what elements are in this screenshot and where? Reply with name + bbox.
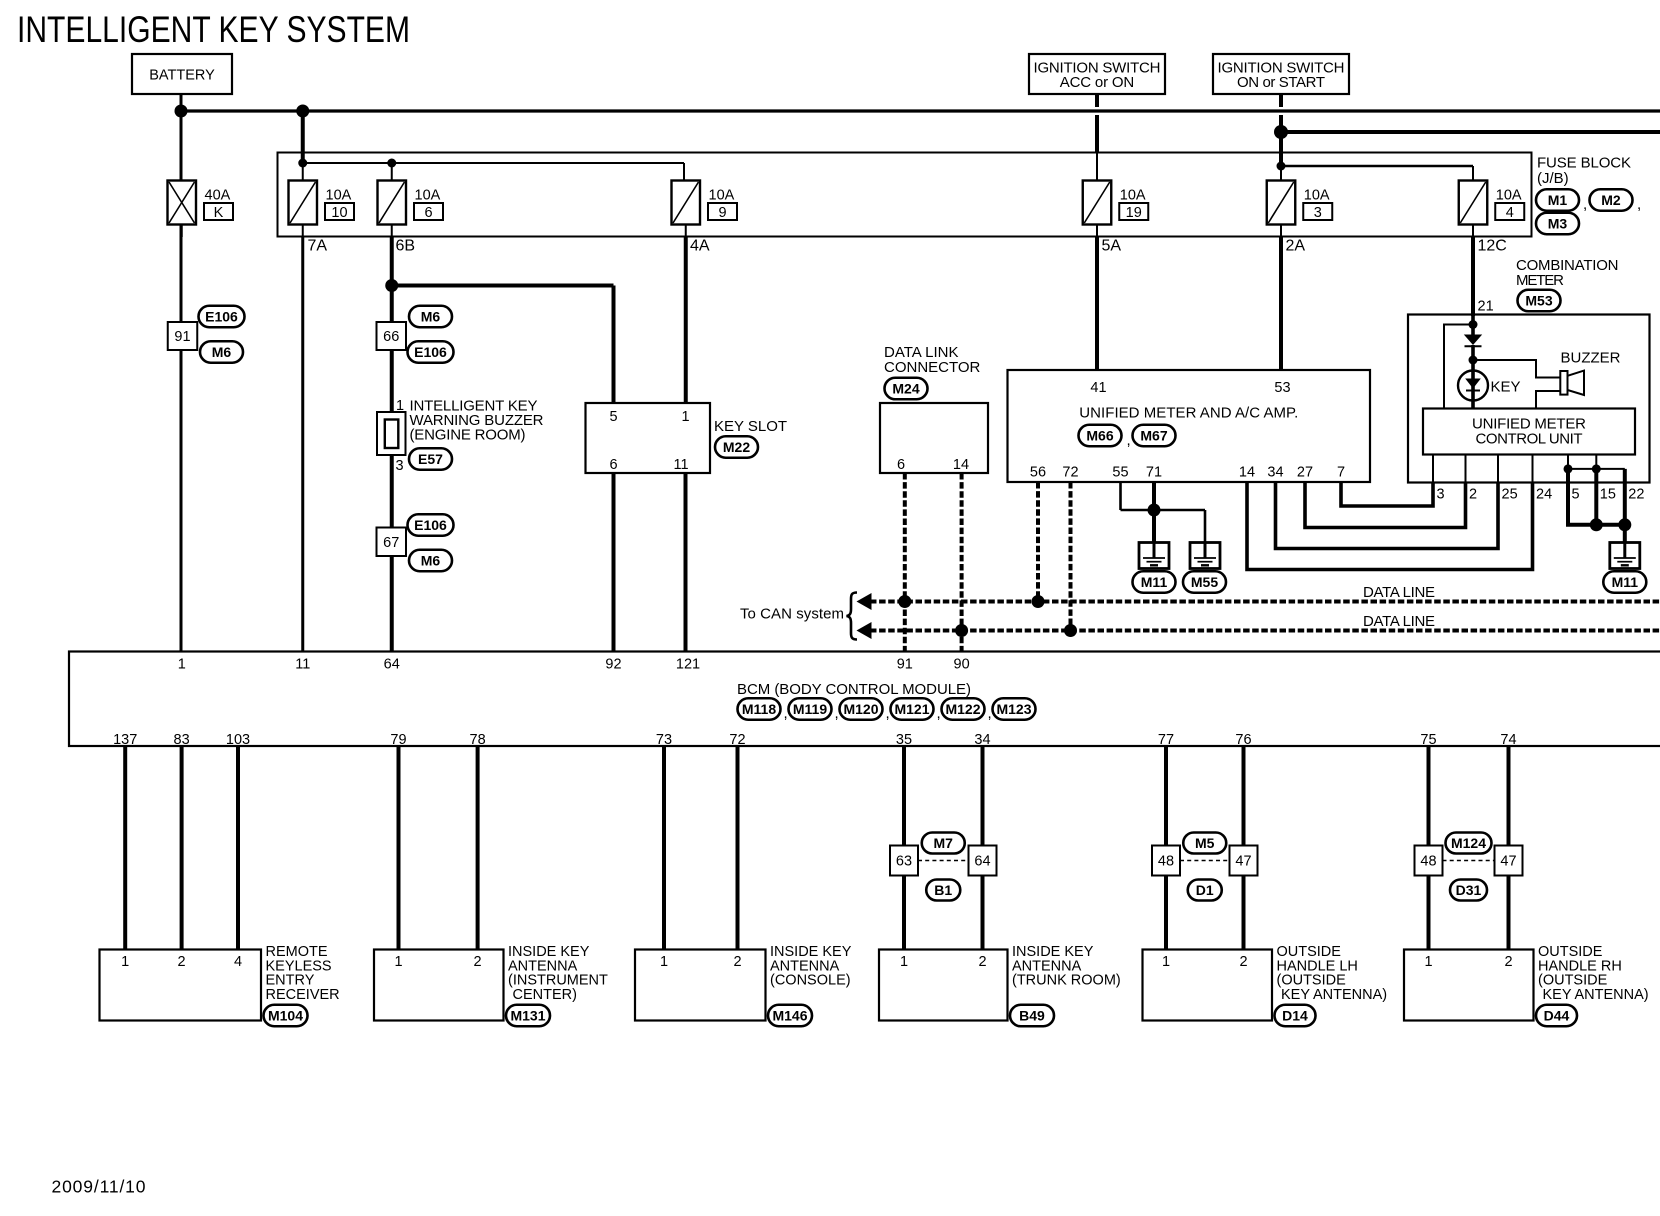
node tie pin 15 — [1592, 464, 1601, 473]
wire BCM to antenna via connector — [1427, 746, 1431, 950]
connector M122 — [942, 698, 985, 720]
buzzer speaker symbol — [1560, 371, 1584, 395]
svg-text:M11: M11 — [1612, 574, 1639, 590]
svg-text:BCM (BODY CONTROL MODULE): BCM (BODY CONTROL MODULE) — [737, 681, 971, 698]
connector split M5/D1 — [1180, 860, 1230, 862]
svg-text:1: 1 — [121, 954, 129, 970]
wire amp pin 55 down — [1119, 482, 1122, 510]
svg-text:KEY ANTENNA): KEY ANTENNA) — [1543, 987, 1649, 1003]
svg-text:M67: M67 — [1140, 428, 1167, 444]
svg-text:12C: 12C — [1478, 238, 1507, 255]
fuse 10A 19 — [1083, 181, 1149, 225]
connector M118 — [738, 698, 781, 720]
node key/buzzer junction — [1469, 356, 1478, 365]
wire BCM to antenna via connector — [902, 746, 906, 950]
svg-text:CONNECTOR: CONNECTOR — [884, 359, 981, 376]
wire 6B to BCM pin 64 — [390, 237, 394, 652]
wire internal rail drop to fuse 9 — [683, 163, 685, 181]
wire meter pin 5 down — [1566, 469, 1570, 525]
svg-text:M6: M6 — [212, 344, 232, 360]
wire pin 21 into meter — [1471, 315, 1475, 337]
wire BCM to antenna/receiver — [123, 746, 127, 950]
svg-text:11: 11 — [673, 457, 688, 473]
svg-text:M121: M121 — [894, 701, 929, 717]
svg-text:M1: M1 — [1548, 192, 1568, 208]
svg-text:47: 47 — [1500, 854, 1516, 870]
svg-text:CONTROL UNIT: CONTROL UNIT — [1476, 431, 1583, 448]
wire ACC inside fuse block to fuse 19 — [1096, 153, 1098, 182]
wire control unit pin stub — [1465, 455, 1467, 483]
wire key slot pin 6 to BCM 92 — [612, 473, 616, 652]
svg-text:2: 2 — [1504, 954, 1512, 970]
wire BCM to antenna/receiver — [180, 746, 184, 950]
connector M11 — [1603, 571, 1646, 593]
svg-text:48: 48 — [1420, 854, 1436, 870]
wire data line 2 — [870, 629, 1660, 633]
wire amp pin 71 to ground — [1152, 482, 1156, 543]
svg-text:76: 76 — [1235, 732, 1251, 748]
remote keyless entry receiver M104 — [100, 950, 262, 1021]
fuse 10A 6 — [378, 181, 444, 225]
wire fuse output stub — [1096, 225, 1098, 238]
svg-text:E106: E106 — [414, 517, 447, 533]
connector split M124/D31 — [1443, 860, 1495, 862]
svg-text:48: 48 — [1158, 854, 1174, 870]
arrow data line 1 — [857, 593, 872, 610]
fuse 10A 4 — [1459, 181, 1525, 225]
connector M119 — [789, 698, 832, 720]
svg-text:M66: M66 — [1086, 428, 1113, 444]
wire fuse output stub — [391, 225, 393, 238]
connector D1 — [1188, 880, 1222, 901]
wire CAN-L amp 72 to data line — [1069, 482, 1073, 631]
intelligent key warning buzzer E57 — [377, 412, 406, 455]
svg-text:9: 9 — [718, 205, 726, 221]
connector pass-through 67 — [377, 528, 407, 557]
wire CAN-H amp 56 to data line — [1036, 482, 1040, 602]
wire 12C to combination meter pin 21 — [1471, 237, 1475, 317]
ground M11 (meter) — [1610, 542, 1640, 569]
wire BCM to antenna via connector — [1242, 746, 1246, 950]
svg-text:1: 1 — [178, 657, 186, 673]
connector M24 — [885, 378, 928, 400]
svg-text:83: 83 — [174, 732, 190, 748]
wire internal rail drop to fuse 6 — [391, 163, 393, 181]
wire ground branch right — [1154, 509, 1205, 512]
svg-text:2: 2 — [474, 954, 482, 970]
unified meter control unit box — [1423, 409, 1635, 455]
connector M2 — [1590, 189, 1633, 211]
wire diode to key LED — [1471, 345, 1475, 372]
svg-text:4A: 4A — [690, 238, 710, 255]
svg-text:M53: M53 — [1525, 293, 1552, 309]
ignition switch ACC or ON box — [1029, 54, 1165, 94]
wire fuse output stub — [302, 225, 304, 238]
svg-text:,: , — [988, 705, 992, 722]
svg-text:(TRUNK ROOM): (TRUNK ROOM) — [1012, 973, 1121, 989]
svg-text:40A: 40A — [205, 188, 231, 204]
fuse 40A K — [168, 181, 234, 225]
wire BCM to antenna via connector — [981, 746, 985, 950]
node DLC 6 on data line 1 — [898, 595, 911, 608]
wire ACC drop to fuse block — [1095, 115, 1099, 153]
wire control unit pin 15 stub — [1595, 455, 1597, 469]
svg-text:75: 75 — [1420, 732, 1436, 748]
svg-text:5: 5 — [1572, 487, 1580, 503]
connector M5 — [1183, 833, 1226, 854]
combination meter box — [1408, 315, 1650, 483]
svg-text:1: 1 — [1162, 954, 1170, 970]
node ground join — [1148, 504, 1161, 517]
connector pin 48 — [1415, 846, 1443, 876]
svg-text:M146: M146 — [772, 1008, 807, 1024]
svg-text:79: 79 — [390, 732, 406, 748]
node DLC 14 on data line 2 — [955, 624, 968, 637]
svg-text:,: , — [886, 705, 890, 722]
wire BCM to antenna/receiver — [662, 746, 666, 950]
svg-text:6: 6 — [897, 457, 905, 473]
svg-text:92: 92 — [605, 657, 621, 673]
svg-text:24: 24 — [1536, 487, 1552, 503]
fuse 10A 3 — [1267, 181, 1333, 225]
svg-text:3: 3 — [396, 458, 404, 474]
connector pass-through 66 — [377, 322, 407, 350]
svg-text:10A: 10A — [326, 188, 352, 204]
svg-text:E106: E106 — [414, 344, 447, 360]
wire battery to fuse K — [180, 94, 183, 182]
svg-text:71: 71 — [1146, 465, 1162, 481]
svg-text:90: 90 — [954, 657, 970, 673]
svg-text:1: 1 — [394, 954, 402, 970]
svg-text:63: 63 — [896, 854, 912, 870]
svg-text:7: 7 — [1337, 465, 1345, 481]
wire meter internal 5-15-22 tie — [1568, 468, 1625, 470]
wire ACC drop above bus1 — [1095, 94, 1099, 107]
svg-text:56: 56 — [1030, 465, 1046, 481]
svg-text:103: 103 — [226, 732, 250, 748]
svg-text:M119: M119 — [793, 701, 827, 717]
wire BCM to antenna/receiver — [236, 746, 240, 950]
svg-text:34: 34 — [974, 732, 990, 748]
svg-text:72: 72 — [729, 732, 745, 748]
connector M3 — [1536, 213, 1579, 235]
svg-text:B1: B1 — [934, 882, 952, 898]
CAN brace — [847, 593, 858, 640]
svg-text:,: , — [1127, 432, 1131, 449]
wire fuse output stub — [685, 225, 687, 238]
svg-text:10A: 10A — [1120, 188, 1146, 204]
svg-text:M123: M123 — [996, 701, 1031, 717]
svg-text:,: , — [784, 705, 788, 722]
svg-text:INTELLIGENT KEY SYSTEM: INTELLIGENT KEY SYSTEM — [17, 9, 410, 50]
wire fuse output stub — [181, 225, 183, 238]
wire key slot pin 11 to BCM 121 — [684, 473, 688, 652]
wire 7A to BCM pin 11 — [301, 237, 304, 652]
svg-text:1: 1 — [396, 398, 404, 414]
svg-text:M131: M131 — [510, 1008, 545, 1024]
svg-text:BUZZER: BUZZER — [1561, 350, 1621, 367]
connector M6 — [409, 306, 452, 328]
connector M55 — [1183, 571, 1226, 593]
svg-text:78: 78 — [470, 732, 486, 748]
wire control unit pin stub — [1497, 455, 1499, 483]
connector M123 — [993, 698, 1036, 720]
svg-text:,: , — [1583, 196, 1587, 213]
svg-text:D31: D31 — [1456, 882, 1482, 898]
wire buzzer to control unit — [1536, 391, 1560, 409]
svg-text:10A: 10A — [415, 188, 441, 204]
wire amp pin 7 to meter pin 3 — [1341, 482, 1433, 506]
svg-text:2: 2 — [1239, 954, 1247, 970]
node battery bus junction 1 — [175, 105, 188, 118]
svg-text:21: 21 — [1478, 299, 1494, 315]
node tie pin 5 — [1564, 464, 1573, 473]
wire junction to control unit left — [1444, 325, 1473, 409]
wire control unit pin stub — [1432, 455, 1434, 483]
wire CAN-H DLC to BCM 91 — [903, 473, 907, 652]
svg-text:121: 121 — [676, 657, 700, 673]
fuse 10A 9 — [672, 181, 738, 225]
svg-text:ON or START: ON or START — [1237, 74, 1325, 91]
svg-text:K: K — [214, 205, 224, 221]
connector pin 48 — [1152, 846, 1180, 876]
svg-text:53: 53 — [1274, 380, 1290, 396]
svg-text:M120: M120 — [843, 701, 878, 717]
wire BCM to antenna/receiver — [397, 746, 401, 950]
svg-text:15: 15 — [1600, 487, 1616, 503]
node internal rail junction fuse 3 — [1277, 162, 1286, 171]
svg-text:(ENGINE ROOM): (ENGINE ROOM) — [410, 427, 526, 444]
svg-text:DATA LINE: DATA LINE — [1363, 613, 1435, 630]
svg-text:3: 3 — [1437, 487, 1445, 503]
node 6B branch junction — [385, 279, 398, 292]
svg-text:KEY ANTENNA): KEY ANTENNA) — [1281, 987, 1387, 1003]
svg-text:47: 47 — [1235, 854, 1251, 870]
wire bus2 ignition feed — [1281, 130, 1660, 134]
wire 2A to meter amp pin 53 — [1279, 237, 1283, 371]
svg-text:D44: D44 — [1544, 1008, 1570, 1024]
connector E106 — [408, 341, 454, 363]
wire bus1 battery feed — [180, 109, 1660, 112]
svg-text:M55: M55 — [1191, 574, 1218, 590]
fuse 10A 10 — [289, 181, 355, 225]
node meter internal junction — [1469, 320, 1478, 329]
wire control unit pin 5 stub — [1567, 455, 1569, 469]
svg-text:M24: M24 — [892, 381, 919, 397]
node ground tie 15 — [1590, 518, 1603, 531]
svg-text:2: 2 — [978, 954, 986, 970]
svg-text:5A: 5A — [1102, 238, 1122, 255]
connector M6 — [409, 550, 452, 572]
unified meter and A/C amp box — [1008, 370, 1371, 482]
outside handle LH D14 — [1143, 950, 1273, 1021]
svg-text:27: 27 — [1297, 465, 1313, 481]
connector M66 — [1079, 425, 1122, 447]
svg-text:1: 1 — [660, 954, 668, 970]
battery box — [132, 54, 232, 94]
inside key antenna instrument center M131 — [374, 950, 504, 1021]
inside key antenna console M146 — [635, 950, 766, 1021]
svg-text:To CAN system: To CAN system — [740, 606, 844, 623]
wire BCM to antenna via connector — [1164, 746, 1168, 950]
connector pin 64 — [969, 846, 997, 876]
connector M121 — [891, 698, 934, 720]
wire amp pin 14 to meter pin 24 — [1247, 482, 1533, 570]
svg-text:137: 137 — [113, 732, 137, 748]
wire 6B branch to key slot — [392, 284, 614, 288]
svg-text:2A: 2A — [1286, 238, 1306, 255]
svg-text:67: 67 — [383, 535, 399, 551]
svg-text:METER: METER — [1516, 272, 1564, 289]
svg-text:ACC or ON: ACC or ON — [1060, 74, 1135, 91]
svg-text:D14: D14 — [1282, 1008, 1308, 1024]
svg-text:91: 91 — [174, 329, 190, 345]
svg-text:2: 2 — [733, 954, 741, 970]
svg-text:2: 2 — [178, 954, 186, 970]
diode D1 (meter) — [1464, 335, 1482, 347]
svg-text:3: 3 — [1314, 205, 1322, 221]
wire control unit pin stub — [1532, 455, 1534, 483]
wire 4A to key slot pin 1 — [684, 237, 688, 404]
svg-text:DATA LINE: DATA LINE — [1363, 584, 1435, 601]
node ground tie 22 — [1618, 518, 1631, 531]
svg-text:E106: E106 — [205, 309, 238, 325]
svg-text:4: 4 — [1506, 205, 1514, 221]
connector E57 — [409, 448, 452, 470]
svg-text:10A: 10A — [1304, 188, 1330, 204]
fuse block (J/B) outline — [278, 153, 1532, 237]
svg-text:1: 1 — [681, 409, 689, 425]
wire fuse block internal battery rail — [303, 162, 684, 164]
svg-text:72: 72 — [1062, 465, 1078, 481]
svg-text:M118: M118 — [742, 701, 776, 717]
node internal rail junction fuse 10 — [298, 159, 307, 168]
svg-text:M124: M124 — [1451, 835, 1486, 851]
svg-text:64: 64 — [974, 854, 990, 870]
svg-text:22: 22 — [1628, 487, 1644, 503]
wire meter pin 22 to ground — [1623, 469, 1627, 543]
svg-text:74: 74 — [1500, 732, 1516, 748]
svg-text:M2: M2 — [1601, 192, 1621, 208]
wire BCM to antenna via connector — [1507, 746, 1511, 950]
svg-text:1: 1 — [1424, 954, 1432, 970]
svg-text:,: , — [937, 705, 941, 722]
wire 5A to meter amp pin 41 — [1095, 237, 1099, 371]
connector M67 — [1133, 425, 1176, 447]
svg-text:25: 25 — [1502, 487, 1518, 503]
wire internal rail drop to fuse 4 — [1472, 166, 1474, 181]
svg-text:19: 19 — [1126, 205, 1142, 221]
ignition switch ON or START box — [1213, 54, 1349, 94]
wire branch drop to key slot pin 5 — [612, 286, 616, 404]
key slot M22 box — [586, 403, 711, 473]
svg-text:FUSE BLOCK: FUSE BLOCK — [1537, 155, 1631, 172]
svg-text:M6: M6 — [421, 309, 441, 325]
wire internal rail drop to fuse 3 — [1280, 166, 1282, 181]
ground M55 — [1190, 542, 1220, 569]
connector E106 — [408, 514, 454, 536]
connector M53 — [1518, 290, 1561, 312]
connector M1 — [1536, 189, 1579, 211]
svg-text:B49: B49 — [1019, 1008, 1045, 1024]
wire fuse block internal ignition rail to fuse 4 — [1281, 165, 1473, 167]
connector pass-through 91 — [168, 322, 198, 350]
svg-text:10: 10 — [331, 205, 347, 221]
svg-text:CENTER): CENTER) — [513, 987, 577, 1003]
wire fuse K to BCM pin 1 — [180, 225, 183, 652]
connector split M7/B1 — [918, 860, 969, 862]
wire bus1 drop to fuse block — [301, 111, 305, 165]
svg-text:UNIFIED METER AND A/C AMP.: UNIFIED METER AND A/C AMP. — [1079, 405, 1298, 422]
svg-text:BATTERY: BATTERY — [149, 68, 215, 84]
svg-text:E57: E57 — [418, 451, 443, 467]
wire amp pin 27 to meter pin 2 — [1305, 482, 1466, 528]
connector M6 — [200, 341, 243, 363]
connector M22 — [715, 436, 758, 458]
wire data line 1 — [870, 600, 1660, 604]
wire internal rail drop to fuse 10 — [302, 163, 304, 181]
svg-text:D1: D1 — [1196, 882, 1214, 898]
wire ON drop to fuse block node — [1279, 115, 1283, 167]
svg-text:5: 5 — [609, 409, 617, 425]
connector M120 — [840, 698, 883, 720]
svg-text:14: 14 — [1239, 465, 1255, 481]
node amp 56 on data line 1 — [1032, 595, 1045, 608]
BCM (body control module) box — [69, 652, 1660, 747]
inside key antenna trunk room B49 — [879, 950, 1008, 1021]
svg-text:35: 35 — [896, 732, 912, 748]
svg-text:4: 4 — [234, 954, 242, 970]
wire ground tie below meter — [1566, 523, 1625, 527]
svg-text:M22: M22 — [723, 439, 750, 455]
svg-text:,: , — [1637, 196, 1641, 213]
svg-text:77: 77 — [1158, 732, 1174, 748]
svg-text:M3: M3 — [1548, 216, 1568, 232]
arrow data line 2 — [857, 622, 872, 639]
wire CAN-L DLC to BCM 90 — [960, 473, 964, 652]
node amp 72 on data line 2 — [1064, 624, 1077, 637]
connector M124 — [1446, 833, 1492, 854]
svg-text:,: , — [835, 705, 839, 722]
connector E106 — [199, 306, 245, 328]
outside handle RH D44 — [1404, 950, 1534, 1021]
connector D31 — [1450, 880, 1487, 901]
connector pin 63 — [890, 846, 918, 876]
svg-text:1: 1 — [900, 954, 908, 970]
svg-text:66: 66 — [383, 329, 399, 345]
connector pin 47 — [1495, 846, 1523, 876]
node battery bus junction 2 — [296, 105, 309, 118]
connector M7 — [922, 833, 965, 854]
svg-text:M6: M6 — [421, 553, 441, 569]
svg-text:11: 11 — [295, 657, 310, 673]
node ON/START bus junction — [1274, 125, 1288, 139]
svg-text:KEY SLOT: KEY SLOT — [714, 418, 787, 435]
node internal rail junction fuse 6 — [387, 159, 396, 168]
wire BCM to antenna/receiver — [476, 746, 480, 950]
svg-text:91: 91 — [897, 657, 913, 673]
svg-text:2009/11/10: 2009/11/10 — [52, 1177, 146, 1197]
svg-text:10A: 10A — [709, 188, 735, 204]
svg-text:KEY: KEY — [1491, 379, 1521, 396]
wire junction to buzzer — [1473, 360, 1560, 378]
wire meter pin 15 down — [1594, 469, 1598, 525]
key LED indicator — [1458, 371, 1488, 401]
wire pin 55 to pin 71 join — [1121, 509, 1155, 512]
svg-text:M11: M11 — [1141, 574, 1168, 590]
ground M11 (amp) — [1139, 542, 1169, 569]
svg-text:64: 64 — [384, 657, 400, 673]
